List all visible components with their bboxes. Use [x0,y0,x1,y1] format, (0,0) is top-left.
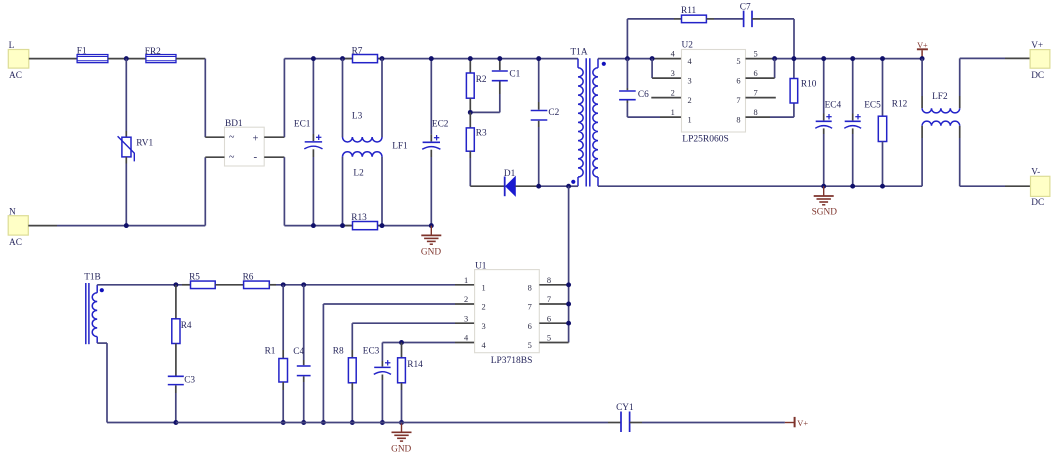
svg-text:~: ~ [229,152,235,163]
IC U1 LP3718BS [464,262,551,366]
wire U2 pin4 connection [652,58,681,60]
svg-text:R8: R8 [333,346,344,356]
node pin6 tie [566,321,571,326]
wire U2 pin5 to rail [746,58,923,60]
wire secondary top rail [598,58,652,60]
node R14 bottom [399,420,404,425]
wire U1 pin3 [352,323,474,358]
node EC4 bottom [821,184,826,189]
wire CY1 to V+ net [630,422,785,424]
svg-text:5: 5 [736,57,740,66]
capacitor C3 [168,375,196,422]
svg-text:T1A: T1A [571,48,588,58]
node C3 bottom [173,420,178,425]
resistor R6 [243,272,270,288]
svg-text:R2: R2 [476,75,487,85]
svg-text:2: 2 [688,96,692,105]
svg-text:BD1: BD1 [225,119,243,129]
svg-text:2: 2 [671,89,675,98]
svg-text:RV1: RV1 [136,139,153,149]
wire U1 pin5 [539,342,568,344]
svg-text:V+: V+ [917,41,928,50]
polarity dot T1B [100,288,104,292]
svg-text:T1B: T1B [84,272,101,282]
wire U2 pin6 connection [746,59,775,79]
svg-text:5: 5 [547,334,551,343]
node R1 top [281,282,286,287]
svg-text:EC4: EC4 [825,101,842,111]
svg-text:3: 3 [688,77,692,86]
wire BD1 minus output to bottom rail [284,157,431,225]
wire secondary bottom rail [598,185,922,187]
svg-text:V+: V+ [797,419,808,428]
node EC1 bottom [311,223,316,228]
capacitor C7 [740,3,752,28]
capacitor C1 [470,59,520,113]
resistor R5 [189,272,215,288]
ground GND aux [391,423,411,455]
node R2 top [468,56,473,61]
wire bottom rail to CY1 [176,422,621,424]
wire R3 to D1 [470,185,504,187]
choke winding L2 [343,152,383,226]
wire U1 pin8 [539,284,568,286]
power symbol V+ bottom [785,417,808,428]
node EC4 top [821,56,826,61]
ground SGND secondary [812,186,838,217]
svg-text:L: L [9,41,15,51]
capacitor EC2 [422,59,449,226]
svg-text:6: 6 [528,322,532,331]
node R4 top [173,282,178,287]
svg-text:DC: DC [1031,71,1044,81]
node pin2 rail [321,420,326,425]
ground GND primary [421,226,441,258]
svg-text:EC5: EC5 [864,101,881,111]
svg-text:3: 3 [671,69,675,78]
node U2 pin5/6 tie [772,56,777,61]
resistor R14 [398,343,424,423]
wire U2 pin2 stub [651,97,681,99]
transformer T1B winding [84,272,101,343]
svg-text:EC2: EC2 [432,119,449,129]
svg-text:GND: GND [391,444,411,454]
svg-text:5: 5 [528,341,532,350]
svg-text:LP25R060S: LP25R060S [682,135,728,145]
wire T1B bottom to rail [97,343,176,422]
svg-text:7: 7 [547,295,551,304]
wire LF2 to V- DC port [960,185,1031,187]
node EC5 top [850,56,855,61]
resistor R11 [681,6,706,23]
transformer T1A primary winding [569,48,588,187]
node C4 bottom [301,420,306,425]
node EC3 bottom [380,420,385,425]
svg-text:F1: F1 [77,47,87,57]
wire T1B top to R5 [97,284,190,286]
svg-text:C7: C7 [740,3,751,13]
svg-text:D1: D1 [504,169,516,179]
capacitor C2 [531,59,560,187]
svg-text:R11: R11 [681,6,697,16]
resistor R1 [265,285,288,423]
svg-text:R13: R13 [351,213,367,223]
svg-text:8: 8 [528,283,532,292]
svg-text:V-: V- [1031,168,1040,178]
power symbol V+ top [917,41,928,59]
wire U1 pin2 [323,304,474,423]
svg-text:-: - [254,151,258,163]
wire R5 to R6 [215,284,243,286]
svg-text:R6: R6 [243,272,254,282]
node junction L/RV1 [124,56,129,61]
node R13 right [380,223,385,228]
svg-text:6: 6 [736,77,740,86]
wire F1 to FR2 [108,58,146,60]
node snubber left [625,56,630,61]
capacitor EC1 [294,59,323,226]
node pin8 tie [566,282,571,287]
transformer T1A core [586,58,590,186]
svg-text:7: 7 [754,89,758,98]
svg-text:R7: R7 [352,47,363,57]
svg-text:R1: R1 [265,346,276,356]
wire R6 to U1 pin1 [269,284,474,286]
svg-text:3: 3 [482,322,486,331]
node junction N/RV1 [124,223,129,228]
wire D1 to C2/T1A [515,185,568,187]
node C2 bottom [536,184,541,189]
resistor R10 [790,59,817,103]
svg-text:LF1: LF1 [392,141,408,151]
svg-text:R12: R12 [892,99,908,109]
node C2 top [536,56,541,61]
capacitor EC4 [815,59,841,187]
port V- DC output [1031,168,1050,208]
svg-text:3: 3 [464,314,468,323]
node EC2 top [429,56,434,61]
svg-text:2: 2 [482,303,486,312]
wire N rail [28,157,205,225]
svg-text:1: 1 [464,276,468,285]
svg-text:C6: C6 [638,90,649,100]
svg-text:+: + [253,134,259,145]
svg-text:7: 7 [528,303,532,312]
label LF1 [392,141,408,151]
wire FR2 to BD1 input [176,59,205,138]
svg-text:8: 8 [736,116,740,125]
svg-text:R14: R14 [407,360,423,370]
svg-text:1: 1 [482,283,486,292]
node R7 right [380,56,385,61]
wire U2 pin3 connection [652,59,681,79]
svg-text:C4: C4 [293,347,304,357]
inductor LF2 lower winding [922,121,960,186]
wire L to F1 [29,58,77,60]
capacitor CY1 [616,403,634,432]
node R12 bottom [880,184,885,189]
svg-text:R3: R3 [476,129,487,139]
svg-text:5: 5 [754,50,758,59]
capacitor C4 [293,285,310,423]
wire U1 pin7 [539,303,568,305]
node R12 top [880,56,885,61]
svg-text:C3: C3 [184,375,195,385]
svg-text:LP3718BS: LP3718BS [491,356,533,366]
wire U2 pin8 to R10 bottom [746,103,794,117]
diode D1 [504,169,516,196]
svg-text:V+: V+ [1031,41,1043,51]
svg-text:R4: R4 [181,321,192,331]
node R13 left [340,223,345,228]
node U2 pin3 tie [650,56,655,61]
svg-text:8: 8 [547,276,551,285]
port V+ DC output [1030,41,1050,81]
node C4 top [301,282,306,287]
fuse F1 [77,47,108,63]
svg-text:2: 2 [464,295,468,304]
svg-text:GND: GND [421,247,441,257]
resistor R7 [343,47,383,63]
op-amp U2 LP25R060S [671,41,758,145]
wire LF2 to V+ DC port [960,57,1030,59]
svg-text:AC: AC [9,71,22,81]
svg-text:SGND: SGND [812,208,838,218]
svg-text:C1: C1 [509,70,520,80]
svg-text:7: 7 [736,96,740,105]
svg-text:R5: R5 [189,272,200,282]
node pin7 tie [566,302,571,307]
wire primary bottom to U1 pins [568,186,570,342]
node R14 top [399,340,404,345]
node R2/R3/C1 junction [468,110,473,115]
resistor R4 [172,285,192,376]
svg-text:DC: DC [1031,198,1044,208]
svg-text:CY1: CY1 [616,403,634,413]
transformer T1A secondary winding [593,59,598,187]
resistor R3 [466,112,487,186]
node R7 left [340,56,345,61]
choke winding L3 [343,59,383,142]
svg-text:6: 6 [547,314,551,323]
svg-text:8: 8 [754,108,758,117]
resistor R8 [333,346,356,422]
svg-text:1: 1 [688,116,692,125]
svg-text:U1: U1 [475,262,487,272]
svg-text:FR2: FR2 [145,47,161,57]
svg-text:N: N [9,208,16,218]
svg-text:C2: C2 [548,108,559,118]
node R1 bottom [281,420,286,425]
resistor R2 [466,59,487,113]
port N (AC neutral input) [8,208,28,248]
wire U1 pin4 [382,342,474,344]
svg-text:6: 6 [754,69,758,78]
svg-text:EC1: EC1 [294,119,311,129]
resistor R12 [878,59,907,187]
wire BD1 plus output to top rail [284,59,578,138]
capacitor EC3 [363,343,391,423]
node EC1 top [311,56,316,61]
svg-text:U2: U2 [682,41,694,51]
node T1A primary bottom junction [566,184,571,189]
port L (AC live input) [8,41,29,81]
svg-text:AC: AC [9,238,22,248]
node C1 top [497,56,502,61]
svg-text:1: 1 [671,108,675,117]
svg-text:R10: R10 [801,80,817,90]
svg-text:L2: L2 [353,168,364,178]
transformer T1B core [86,283,89,344]
capacitor EC5 [844,59,881,187]
wire U2 pin7 stub [746,97,776,99]
polarity dot T1A primary [571,180,575,184]
svg-text:~: ~ [229,132,235,143]
varistor RV1 [118,59,154,226]
node EC5 bottom [850,184,855,189]
node R10 top / C7 tie [791,56,796,61]
wire R11 to C7 [706,18,743,20]
resistor R13 [343,213,383,230]
capacitor C6 [619,59,681,118]
wire U1 pin6 [539,322,568,324]
node EC2 bottom [429,223,434,228]
node V+ / LF2 [920,56,925,61]
wire snubber left vertical [627,19,681,59]
svg-text:EC3: EC3 [363,346,380,356]
inductor LF2 upper winding [922,58,960,113]
node R8 bottom [350,420,355,425]
bridge rectifier BD1 [205,119,284,166]
polarity dot T1A secondary [602,62,606,66]
fuse FR2 [145,47,176,63]
wire C7 to top rail right [752,19,794,59]
svg-text:LF2: LF2 [932,92,948,102]
svg-text:L3: L3 [352,111,363,121]
